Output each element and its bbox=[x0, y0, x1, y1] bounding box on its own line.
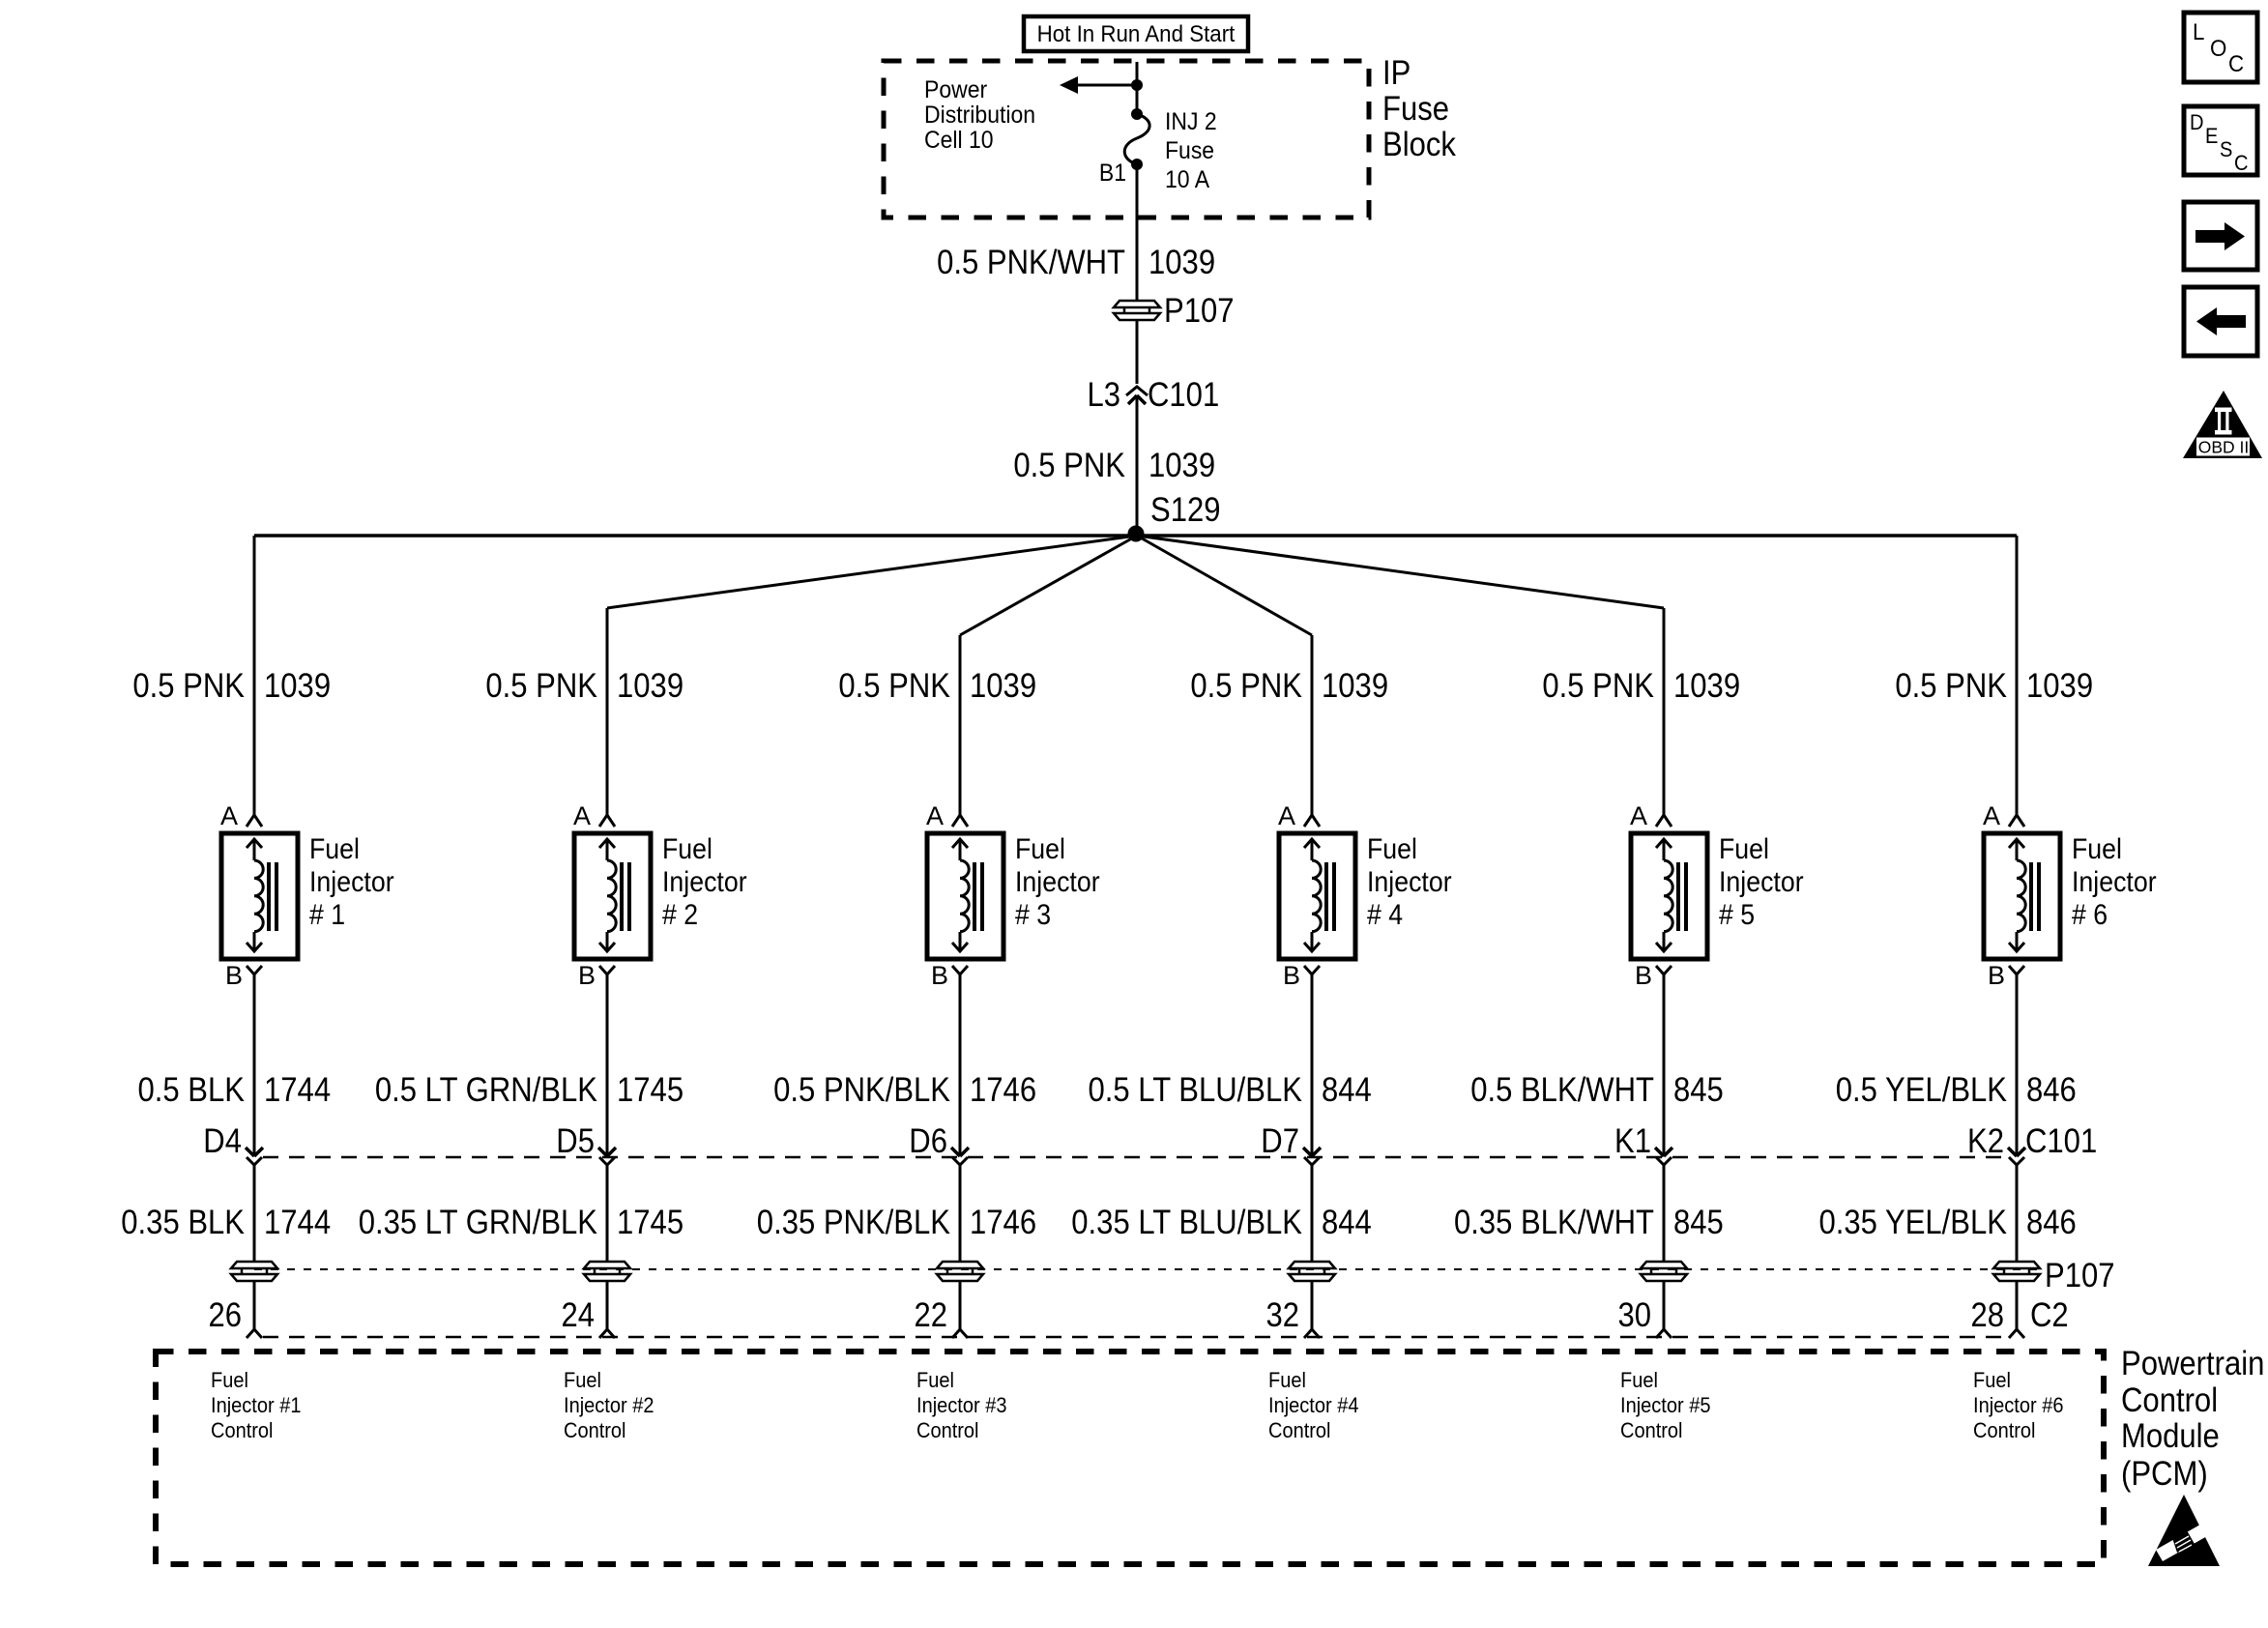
Powertrain Control Module (PCM) dashed box bbox=[156, 1352, 2104, 1564]
pin B of fuel injector #3 bbox=[931, 961, 968, 990]
wire label 0.5 PNK/BLK 1746 bbox=[773, 1071, 1036, 1109]
svg-text:0.5 PNK/BLK: 0.5 PNK/BLK bbox=[773, 1071, 950, 1109]
svg-text:# 6: # 6 bbox=[2072, 899, 2108, 931]
svg-text:0.35 YEL/BLK: 0.35 YEL/BLK bbox=[1819, 1204, 2008, 1241]
svg-text:24: 24 bbox=[562, 1296, 596, 1334]
fuel injector #5 core bars bbox=[1678, 862, 1686, 931]
svg-text:Control: Control bbox=[211, 1418, 274, 1442]
svg-text:A: A bbox=[573, 801, 591, 830]
wire label 0.5 PNK 1039 (main) bbox=[1013, 447, 1215, 484]
svg-text:Injector: Injector bbox=[662, 866, 747, 898]
fuel injector #4 plunger arrow bbox=[1304, 839, 1320, 951]
wire 0.5 LT GRN/BLK 1745 branch 2 bbox=[606, 974, 609, 1156]
wire label 0.5 PNK 1039 branch 6 bbox=[1895, 667, 2093, 705]
svg-text:32: 32 bbox=[1266, 1296, 1300, 1334]
fuel injector #4 coil bbox=[1312, 860, 1321, 932]
svg-text:D6: D6 bbox=[909, 1122, 947, 1160]
svg-text:INJ 2: INJ 2 bbox=[1165, 108, 1217, 135]
fuel injector #1 box bbox=[221, 833, 298, 959]
svg-text:(PCM): (PCM) bbox=[2121, 1455, 2208, 1493]
svg-text:Injector #4: Injector #4 bbox=[1268, 1393, 1359, 1417]
pin 24 of PCM connector C2 bbox=[562, 1296, 616, 1338]
svg-text:26: 26 bbox=[209, 1296, 243, 1334]
fuel injector #2 core bars bbox=[622, 862, 629, 931]
splice S129 junction dot bbox=[1128, 526, 1145, 542]
svg-text:28: 28 bbox=[1971, 1296, 2005, 1334]
svg-text:1746: 1746 bbox=[970, 1071, 1036, 1109]
svg-text:1744: 1744 bbox=[264, 1204, 331, 1241]
wire: splice fan-out to branch 3 bbox=[960, 536, 1137, 635]
svg-text:C: C bbox=[2234, 151, 2249, 175]
svg-text:O: O bbox=[2210, 36, 2226, 62]
pin A of fuel injector #4 bbox=[1278, 801, 1320, 830]
connector P107 pass-through, branch 1 bbox=[231, 1262, 277, 1281]
svg-text:L3: L3 bbox=[1088, 376, 1121, 414]
svg-text:A: A bbox=[220, 801, 238, 830]
fuel injector #2 coil bbox=[607, 860, 616, 932]
svg-text:1745: 1745 bbox=[617, 1204, 683, 1241]
wire label 0.5 YEL/BLK 846 bbox=[1836, 1071, 2077, 1109]
svg-text:0.35 PNK/BLK: 0.35 PNK/BLK bbox=[757, 1204, 950, 1241]
pin A of fuel injector #6 bbox=[1983, 801, 2024, 830]
wire 0.5 LT BLU/BLK 844 branch 4 bbox=[1311, 974, 1314, 1156]
svg-text:D5: D5 bbox=[556, 1122, 595, 1160]
PCM input: Fuel Injector #5 Control bbox=[1620, 1368, 1711, 1442]
connector P107 pass-through, branch 2 bbox=[584, 1262, 630, 1281]
svg-text:0.5 PNK: 0.5 PNK bbox=[838, 667, 950, 705]
connector P107 pass-through, branch 3 bbox=[937, 1262, 983, 1281]
pin D5 of connector C101 bbox=[556, 1122, 616, 1160]
IP Fuse Block dashed box bbox=[884, 61, 1369, 218]
connector P107 (top) bbox=[1114, 301, 1160, 320]
label Fuel Injector #1 bbox=[309, 833, 394, 931]
svg-text:Fuel: Fuel bbox=[1015, 833, 1065, 865]
fuel injector #5 box bbox=[1631, 833, 1707, 959]
svg-text:Control: Control bbox=[1620, 1418, 1683, 1442]
fuel injector #3 plunger arrow bbox=[952, 839, 968, 951]
svg-text:846: 846 bbox=[2026, 1204, 2077, 1241]
wire label 0.5 LT BLU/BLK 844 bbox=[1089, 1071, 1372, 1109]
wire: feed into fuse block bbox=[1136, 62, 1139, 114]
svg-text:B: B bbox=[931, 961, 948, 990]
label Fuel Injector #3 bbox=[1015, 833, 1100, 931]
svg-text:0.5 YEL/BLK: 0.5 YEL/BLK bbox=[1836, 1071, 2007, 1109]
svg-text:845: 845 bbox=[1673, 1204, 1724, 1241]
svg-text:1745: 1745 bbox=[617, 1071, 683, 1109]
svg-text:S129: S129 bbox=[1150, 491, 1221, 529]
pin K2 of connector C101 bbox=[1967, 1122, 2025, 1160]
wire 0.35 BLK/WHT 845 branch 5 bbox=[1663, 1165, 1666, 1261]
wire label 0.35 PNK/BLK 1746 bbox=[757, 1204, 1036, 1241]
svg-text:30: 30 bbox=[1618, 1296, 1652, 1334]
junction dot on feed wire bbox=[1131, 79, 1143, 91]
fuel injector #2 plunger arrow bbox=[599, 839, 615, 951]
wire 0.35 LT GRN/BLK 1745 branch 2 bbox=[606, 1165, 609, 1261]
fuel injector #3 coil bbox=[960, 860, 969, 932]
pin 30 of PCM connector C2 bbox=[1618, 1296, 1672, 1338]
wire label 0.5 LT GRN/BLK 1745 bbox=[375, 1071, 683, 1109]
svg-text:1039: 1039 bbox=[1322, 667, 1388, 705]
wire 0.5 PNK 1039 branch 2 bbox=[606, 608, 609, 815]
svg-text:Control: Control bbox=[564, 1418, 626, 1442]
svg-text:Powertrain: Powertrain bbox=[2121, 1345, 2264, 1382]
wire: splice fan-out to branch 2 bbox=[607, 536, 1137, 608]
in-line connector C101 pin L3 bbox=[1126, 387, 1148, 404]
label Powertrain Control Module (PCM) bbox=[2121, 1345, 2264, 1493]
fuel injector #1 core bars bbox=[269, 862, 276, 931]
svg-text:Control: Control bbox=[916, 1418, 979, 1442]
sidebar icon: previous-page arrow bbox=[2184, 287, 2257, 356]
svg-text:0.35 LT GRN/BLK: 0.35 LT GRN/BLK bbox=[359, 1204, 597, 1241]
pin 26 of PCM connector C2 bbox=[209, 1296, 263, 1338]
svg-text:1039: 1039 bbox=[1149, 447, 1215, 484]
PCM input: Fuel Injector #3 Control bbox=[916, 1368, 1007, 1442]
wire label 0.5 PNK 1039 branch 1 bbox=[132, 667, 331, 705]
wire label 0.35 YEL/BLK 846 bbox=[1819, 1204, 2077, 1241]
wire label 0.5 PNK 1039 branch 3 bbox=[838, 667, 1036, 705]
svg-text:1744: 1744 bbox=[264, 1071, 331, 1109]
fuel injector #3 box bbox=[927, 833, 1003, 959]
wire 0.5 PNK/WHT 1039 from fuse to P107 bbox=[1136, 164, 1139, 301]
svg-text:0.5 PNK: 0.5 PNK bbox=[485, 667, 597, 705]
wire 0.5 PNK 1039 branch 3 bbox=[959, 635, 962, 815]
connector C101 female half, branch 6 bbox=[2009, 1157, 2024, 1165]
connector C101 female half, branch 5 bbox=[1656, 1157, 1672, 1165]
fuel injector #1 coil bbox=[254, 860, 263, 932]
wire: splice fan-out to branch 5 bbox=[1137, 536, 1664, 608]
fuel injector #1 plunger arrow bbox=[247, 839, 262, 951]
svg-text:B: B bbox=[1283, 961, 1300, 990]
sidebar icon: next-page arrow bbox=[2184, 202, 2257, 270]
svg-text:Fuel: Fuel bbox=[1973, 1368, 2011, 1392]
svg-text:IP: IP bbox=[1382, 54, 1410, 92]
pin B of fuel injector #4 bbox=[1283, 961, 1320, 990]
svg-text:1039: 1039 bbox=[1673, 667, 1740, 705]
pin B of fuel injector #1 bbox=[225, 961, 262, 990]
pin 32 of PCM connector C2 bbox=[1266, 1296, 1321, 1338]
connector C2 dashed interface line bbox=[263, 1336, 2009, 1339]
fuel injector #6 coil bbox=[2017, 860, 2025, 932]
fuel injector #3 core bars bbox=[974, 862, 982, 931]
svg-text:1039: 1039 bbox=[1149, 244, 1215, 281]
svg-text:B1: B1 bbox=[1099, 160, 1126, 187]
svg-text:1039: 1039 bbox=[2026, 667, 2093, 705]
wire branch 2 from P107 to PCM bbox=[606, 1281, 609, 1329]
svg-text:Fuel: Fuel bbox=[1719, 833, 1769, 865]
svg-text:D7: D7 bbox=[1261, 1122, 1299, 1160]
svg-text:Fuse: Fuse bbox=[1382, 90, 1449, 128]
svg-text:0.5 PNK/WHT: 0.5 PNK/WHT bbox=[937, 244, 1125, 281]
svg-text:Injector: Injector bbox=[1719, 866, 1804, 898]
wire 0.5 YEL/BLK 846 branch 6 bbox=[2016, 974, 2019, 1156]
svg-text:C101: C101 bbox=[1148, 376, 1219, 414]
svg-text:A: A bbox=[926, 801, 944, 830]
fuel injector #2 box bbox=[574, 833, 651, 959]
svg-text:Injector #1: Injector #1 bbox=[211, 1393, 302, 1417]
PCM input: Fuel Injector #6 Control bbox=[1973, 1368, 2064, 1442]
pin K1 of connector C101 bbox=[1614, 1122, 1672, 1160]
svg-text:0.5 PNK: 0.5 PNK bbox=[1542, 667, 1654, 705]
svg-text:OBD II: OBD II bbox=[2198, 438, 2250, 457]
wire label 0.5 PNK/WHT 1039 bbox=[937, 244, 1215, 281]
svg-text:B: B bbox=[1988, 961, 2005, 990]
wire 0.5 PNK 1039 branch 6 bbox=[2016, 536, 2019, 815]
svg-text:# 3: # 3 bbox=[1015, 899, 1051, 931]
connector P107 pass-through, branch 5 bbox=[1641, 1262, 1687, 1281]
wire branch 6 from P107 to PCM bbox=[2016, 1281, 2019, 1329]
fuel injector #6 plunger arrow bbox=[2009, 839, 2024, 951]
svg-text:22: 22 bbox=[915, 1296, 948, 1334]
svg-text:0.5 BLK: 0.5 BLK bbox=[138, 1071, 246, 1109]
wire label 0.5 PNK 1039 branch 5 bbox=[1542, 667, 1740, 705]
fuel injector #5 coil bbox=[1664, 860, 1672, 932]
fuel injector #4 box bbox=[1279, 833, 1355, 959]
svg-text:844: 844 bbox=[1322, 1204, 1372, 1241]
svg-text:0.5 LT GRN/BLK: 0.5 LT GRN/BLK bbox=[375, 1071, 597, 1109]
svg-text:A: A bbox=[1630, 801, 1647, 830]
svg-text:Fuel: Fuel bbox=[662, 833, 712, 865]
svg-text:B: B bbox=[578, 961, 596, 990]
svg-text:Distribution: Distribution bbox=[924, 102, 1035, 129]
connector C101 female half, branch 2 bbox=[599, 1157, 615, 1165]
svg-text:Control: Control bbox=[2121, 1381, 2218, 1419]
connector P107 pass-through, branch 4 bbox=[1289, 1262, 1335, 1281]
svg-text:Injector: Injector bbox=[309, 866, 394, 898]
wire 0.35 BLK 1744 branch 1 bbox=[253, 1165, 256, 1261]
svg-text:# 1: # 1 bbox=[309, 899, 345, 931]
ESD sensitivity symbol bbox=[2148, 1495, 2220, 1566]
sidebar icon OBD II bbox=[2183, 391, 2262, 458]
wire label 0.35 LT GRN/BLK 1745 bbox=[359, 1204, 683, 1241]
svg-text:0.5 PNK: 0.5 PNK bbox=[1190, 667, 1302, 705]
svg-text:1746: 1746 bbox=[970, 1204, 1036, 1241]
svg-text:846: 846 bbox=[2026, 1071, 2077, 1109]
svg-text:# 2: # 2 bbox=[662, 899, 698, 931]
svg-text:845: 845 bbox=[1673, 1071, 1724, 1109]
fuel injector #6 core bars bbox=[2031, 862, 2039, 931]
svg-text:Injector: Injector bbox=[1015, 866, 1100, 898]
svg-text:Fuel: Fuel bbox=[211, 1368, 248, 1392]
wire branch 4 from P107 to PCM bbox=[1311, 1281, 1314, 1329]
svg-text:0.5 PNK: 0.5 PNK bbox=[1895, 667, 2007, 705]
pin B of fuel injector #5 bbox=[1635, 961, 1672, 990]
fuel injector #5 plunger arrow bbox=[1656, 839, 1672, 951]
wire branch 5 from P107 to PCM bbox=[1663, 1281, 1666, 1329]
svg-text:B: B bbox=[225, 961, 243, 990]
connector C101 female half, branch 1 bbox=[247, 1157, 262, 1165]
pin D6 of connector C101 bbox=[909, 1122, 969, 1160]
svg-text:C2: C2 bbox=[2030, 1296, 2069, 1334]
fuse INJ 2 Fuse 10 A bbox=[1124, 108, 1149, 170]
wire 0.35 LT BLU/BLK 844 branch 4 bbox=[1311, 1165, 1314, 1261]
wire branch 1 from P107 to PCM bbox=[253, 1281, 256, 1329]
connector C101 female half, branch 3 bbox=[952, 1157, 968, 1165]
connector C101 dashed interface line bbox=[263, 1156, 2009, 1159]
sidebar icon DESC bbox=[2184, 106, 2257, 175]
svg-text:Injector: Injector bbox=[1367, 866, 1452, 898]
svg-text:0.35 BLK/WHT: 0.35 BLK/WHT bbox=[1454, 1204, 1654, 1241]
wire 0.5 BLK 1744 branch 1 bbox=[253, 974, 256, 1156]
connector C101 female half, branch 4 bbox=[1304, 1157, 1320, 1165]
label Power Distribution Cell 10 bbox=[924, 76, 1035, 154]
power feed title box "Hot In Run And Start" bbox=[1024, 16, 1248, 51]
pin 22 of PCM connector C2 bbox=[915, 1296, 969, 1338]
svg-text:E: E bbox=[2205, 124, 2218, 148]
wire label 0.5 BLK 1744 bbox=[138, 1071, 332, 1109]
wire label 0.35 BLK 1744 bbox=[121, 1204, 331, 1241]
svg-text:Fuel: Fuel bbox=[1268, 1368, 1306, 1392]
svg-text:Fuel: Fuel bbox=[309, 833, 360, 865]
svg-text:0.5 PNK: 0.5 PNK bbox=[132, 667, 245, 705]
svg-text:0.5 BLK/WHT: 0.5 BLK/WHT bbox=[1470, 1071, 1654, 1109]
svg-text:Injector: Injector bbox=[2072, 866, 2157, 898]
wire 0.35 YEL/BLK 846 branch 6 bbox=[2016, 1165, 2019, 1261]
wire label 0.5 BLK/WHT 845 bbox=[1470, 1071, 1724, 1109]
sidebar icon LOC bbox=[2184, 13, 2257, 82]
svg-text:P107: P107 bbox=[2045, 1257, 2115, 1294]
label Fuel Injector #5 bbox=[1719, 833, 1804, 931]
pin B of fuel injector #2 bbox=[578, 961, 615, 990]
svg-text:C: C bbox=[2228, 51, 2244, 77]
svg-text:Control: Control bbox=[1268, 1418, 1331, 1442]
svg-text:10 A: 10 A bbox=[1165, 166, 1209, 193]
svg-text:0.35 LT BLU/BLK: 0.35 LT BLU/BLK bbox=[1071, 1204, 1302, 1241]
wire label 0.35 BLK/WHT 845 bbox=[1454, 1204, 1724, 1241]
svg-text:Cell 10: Cell 10 bbox=[924, 127, 994, 154]
fuel injector #6 box bbox=[1984, 833, 2060, 959]
wire from P107 to C101 bbox=[1136, 320, 1139, 384]
wire 0.5 PNK/BLK 1746 branch 3 bbox=[959, 974, 962, 1156]
label Fuel Injector #4 bbox=[1367, 833, 1452, 931]
wire label 0.5 PNK 1039 branch 2 bbox=[485, 667, 683, 705]
svg-text:# 4: # 4 bbox=[1367, 899, 1403, 931]
svg-text:A: A bbox=[1983, 801, 2000, 830]
wire 0.5 PNK 1039 branch 1 bbox=[253, 536, 256, 815]
wire label 0.5 PNK 1039 branch 4 bbox=[1190, 667, 1388, 705]
wire: splice fan-out to branch 4 bbox=[1137, 536, 1312, 635]
svg-text:Injector #5: Injector #5 bbox=[1620, 1393, 1711, 1417]
wire 0.5 PNK 1039 branch 4 bbox=[1311, 635, 1314, 815]
wire 0.5 PNK 1039 branch 5 bbox=[1663, 608, 1666, 815]
svg-text:Fuel: Fuel bbox=[916, 1368, 954, 1392]
connector P107 dashed interface line bbox=[254, 1268, 2040, 1270]
wire 0.5 PNK 1039 from C101 to splice bbox=[1136, 395, 1139, 536]
label IP Fuse Block bbox=[1382, 54, 1456, 163]
svg-text:Fuel: Fuel bbox=[2072, 833, 2122, 865]
svg-text:P107: P107 bbox=[1164, 292, 1235, 330]
wire branch 3 from P107 to PCM bbox=[959, 1281, 962, 1329]
PCM input: Fuel Injector #2 Control bbox=[564, 1368, 654, 1442]
wire 0.35 PNK/BLK 1746 branch 3 bbox=[959, 1165, 962, 1261]
svg-text:K2: K2 bbox=[1967, 1122, 2004, 1160]
svg-text:0.5 LT BLU/BLK: 0.5 LT BLU/BLK bbox=[1089, 1071, 1303, 1109]
svg-text:Injector #6: Injector #6 bbox=[1973, 1393, 2064, 1417]
svg-text:Fuse: Fuse bbox=[1165, 137, 1214, 164]
svg-text:D: D bbox=[2190, 110, 2204, 134]
svg-text:0.5 PNK: 0.5 PNK bbox=[1013, 447, 1125, 484]
svg-text:1039: 1039 bbox=[617, 667, 683, 705]
fuse value label INJ 2 / Fuse / 10 A bbox=[1165, 108, 1217, 193]
svg-text:L: L bbox=[2193, 19, 2204, 45]
pin 28 of PCM connector C2 bbox=[1971, 1296, 2025, 1338]
pin D7 of connector C101 bbox=[1261, 1122, 1321, 1160]
svg-text:0.35 BLK: 0.35 BLK bbox=[121, 1204, 245, 1241]
svg-text:Hot In Run And Start: Hot In Run And Start bbox=[1037, 21, 1236, 47]
svg-text:844: 844 bbox=[1322, 1071, 1372, 1109]
PCM input: Fuel Injector #1 Control bbox=[211, 1368, 302, 1442]
svg-text:D4: D4 bbox=[203, 1122, 242, 1160]
label Fuel Injector #2 bbox=[662, 833, 747, 931]
svg-text:A: A bbox=[1278, 801, 1295, 830]
PCM input: Fuel Injector #4 Control bbox=[1268, 1368, 1359, 1442]
bus wire from splice S129 bbox=[254, 534, 2017, 538]
svg-text:Fuel: Fuel bbox=[564, 1368, 601, 1392]
svg-text:Power: Power bbox=[924, 76, 987, 103]
svg-text:Module: Module bbox=[2121, 1417, 2220, 1455]
svg-text:1039: 1039 bbox=[970, 667, 1036, 705]
svg-text:K1: K1 bbox=[1614, 1122, 1651, 1160]
fuel injector #4 core bars bbox=[1326, 862, 1334, 931]
label Fuel Injector #6 bbox=[2072, 833, 2157, 931]
wire label 0.35 LT BLU/BLK 844 bbox=[1071, 1204, 1372, 1241]
arrow to Power Distribution Cell 10 bbox=[1060, 76, 1137, 94]
svg-text:C101: C101 bbox=[2025, 1122, 2097, 1160]
svg-text:S: S bbox=[2220, 137, 2232, 161]
svg-text:Control: Control bbox=[1973, 1418, 2036, 1442]
pin D4 of connector C101 bbox=[203, 1122, 263, 1160]
wire 0.5 BLK/WHT 845 branch 5 bbox=[1663, 974, 1666, 1156]
svg-text:Injector #2: Injector #2 bbox=[564, 1393, 654, 1417]
pin A of fuel injector #3 bbox=[926, 801, 968, 830]
svg-text:1039: 1039 bbox=[264, 667, 331, 705]
pin A of fuel injector #1 bbox=[220, 801, 262, 830]
svg-text:Block: Block bbox=[1382, 126, 1456, 163]
label L3 C101 bbox=[1088, 376, 1220, 414]
connector P107 pass-through, branch 6 bbox=[1993, 1262, 2040, 1281]
pin B of fuel injector #6 bbox=[1988, 961, 2024, 990]
pin A of fuel injector #5 bbox=[1630, 801, 1672, 830]
svg-text:# 5: # 5 bbox=[1719, 899, 1755, 931]
svg-text:Fuel: Fuel bbox=[1367, 833, 1417, 865]
svg-text:Injector #3: Injector #3 bbox=[916, 1393, 1007, 1417]
pin A of fuel injector #2 bbox=[573, 801, 615, 830]
svg-text:B: B bbox=[1635, 961, 1652, 990]
svg-text:Fuel: Fuel bbox=[1620, 1368, 1658, 1392]
